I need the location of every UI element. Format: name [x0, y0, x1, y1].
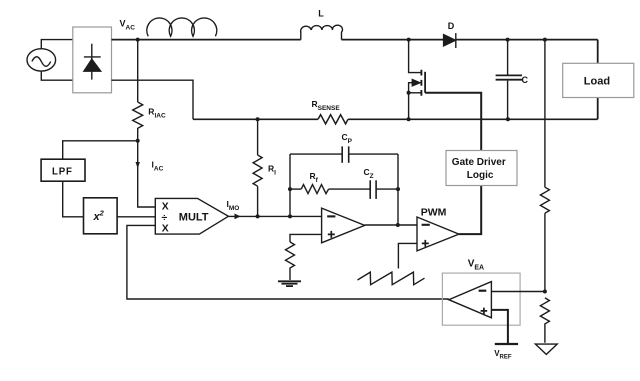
svg-text:LPF: LPF [52, 166, 73, 177]
VEA box [442, 273, 520, 325]
wire AC source to bridge top [41, 40, 73, 49]
svg-text:IMO: IMO [227, 199, 240, 212]
wire bottom rail left of RSENSE [193, 118, 318, 120]
node LPF tap junction [136, 139, 140, 143]
wire X2 to MULT divide input [117, 216, 155, 218]
comparator PWM [417, 217, 459, 251]
resistor RIAC [133, 40, 143, 141]
wire divider rail middle [544, 213, 546, 291]
svg-text:Load: Load [584, 75, 610, 87]
svg-text:Rf: Rf [310, 171, 319, 184]
wire op-amp U1 noninverting input [290, 234, 322, 242]
svg-text:C: C [522, 75, 529, 85]
wire MOSFET gate to gate driver [425, 93, 481, 151]
transistor Q1 MOSFET [407, 40, 426, 120]
node capacitor C bottom junction [506, 117, 510, 121]
svg-text:÷: ÷ [162, 213, 168, 224]
resistor RSENSE [318, 115, 348, 124]
ground U1 [278, 281, 301, 286]
svg-text:X: X [162, 201, 169, 212]
wire top rail diode to load corner [456, 39, 598, 41]
svg-text:D: D [448, 21, 455, 31]
wire EA feedback to MULT bottom input [127, 225, 449, 299]
diode D [444, 33, 456, 48]
svg-text:Gate Driver: Gate Driver [452, 157, 506, 168]
node MOSFET drain junction [407, 38, 411, 42]
wire feedback left vertical [289, 154, 291, 216]
wire IAC to MULT top input [138, 166, 156, 207]
LPF box [41, 159, 85, 181]
capacitor CP [290, 146, 398, 162]
node RI top junction [256, 117, 260, 121]
svg-text:VREF: VREF [494, 349, 512, 361]
wire IAC vertical [137, 141, 139, 165]
op-amp VEA error amplifier [449, 282, 492, 318]
node CZ right junction [396, 187, 400, 191]
svg-text:VAC: VAC [120, 19, 136, 32]
wire bottom rail right of RSENSE [348, 118, 598, 120]
resistor divider lower [540, 298, 549, 343]
wire VEA inverting input to divider [491, 291, 545, 293]
X2 box [84, 198, 118, 234]
inductor input coil [147, 18, 217, 36]
svg-text:CZ: CZ [364, 167, 374, 180]
resistor U1 plus to ground [286, 242, 295, 280]
wire LPF tap [63, 141, 138, 159]
svg-text:MULT: MULT [179, 212, 209, 224]
svg-text:CP: CP [342, 132, 353, 145]
node divider tap junction [543, 290, 547, 294]
wire AC source to bridge bottom [41, 71, 73, 80]
svg-text:IAC: IAC [152, 159, 164, 172]
load box [563, 63, 634, 97]
svg-text:L: L [318, 9, 324, 19]
node MOSFET source junction [407, 117, 411, 121]
multiplier MULT [155, 198, 228, 234]
capacitor CZ [329, 180, 398, 199]
node op-amp output junction [396, 223, 400, 227]
wire bridge output top (VAC rail) [112, 39, 301, 41]
wire op-amp U1 output to PWM [365, 224, 417, 226]
node capacitor C top junction [506, 38, 510, 42]
svg-text:X: X [162, 223, 169, 234]
svg-text:RI: RI [268, 164, 276, 177]
node divider top junction [543, 38, 547, 42]
node feedback left bottom junction [288, 214, 292, 218]
svg-text:Logic: Logic [467, 170, 494, 181]
wire divider rail upper [544, 40, 546, 188]
ground divider triangle [535, 344, 557, 354]
node feedback mid-left junction [288, 187, 292, 191]
svg-text:VEA: VEA [468, 259, 484, 272]
capacitor C [496, 40, 522, 120]
node IMO junction at RI [256, 214, 260, 218]
arrow IAC [136, 162, 140, 169]
wire PWM noninverting input to ramp [398, 243, 417, 268]
bridge rectifier [73, 27, 112, 93]
wire MULT output [228, 215, 321, 217]
resistor RI [253, 119, 262, 216]
gate driver logic box [446, 151, 517, 186]
svg-text:PWM: PWM [421, 207, 447, 219]
wire top rail to diode [342, 39, 444, 41]
resistor divider upper [540, 187, 549, 213]
wire bridge output bottom [112, 80, 194, 119]
sawtooth ramp [358, 272, 425, 285]
VREF terminal bar [495, 343, 518, 345]
svg-text:RSENSE: RSENSE [312, 99, 341, 112]
wire feedback right vertical [397, 154, 399, 225]
wire load vertical right [597, 40, 599, 120]
svg-text:x2: x2 [93, 209, 105, 224]
AC source VIN [27, 49, 56, 71]
wire LPF to X2 [63, 181, 84, 217]
inductor L [301, 25, 343, 39]
arrow IMO [235, 214, 241, 220]
op-amp U1 current amplifier [322, 208, 365, 243]
wire VEA noninverting input to VREF [491, 310, 508, 344]
svg-text:RIAC: RIAC [148, 106, 166, 119]
resistor Rf [290, 185, 329, 194]
node VAC junction [136, 38, 140, 42]
wire PWM output to gate driver [459, 185, 481, 234]
